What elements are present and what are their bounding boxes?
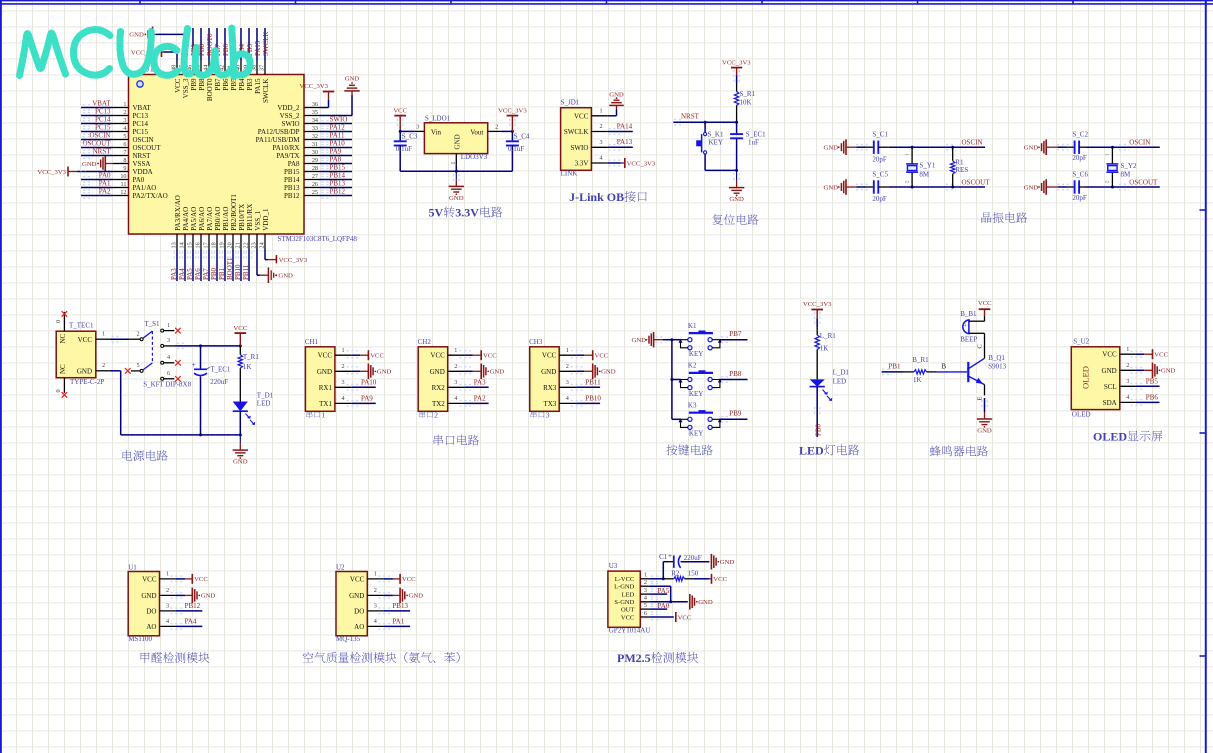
svg-text:8M: 8M xyxy=(1121,171,1132,179)
svg-text:GND: GND xyxy=(409,593,424,600)
svg-text:5: 5 xyxy=(137,362,140,369)
svg-text:VCC_3V3: VCC_3V3 xyxy=(498,108,527,115)
svg-text:11: 11 xyxy=(121,181,127,188)
svg-text:NC: NC xyxy=(59,333,67,343)
wire button to capacitor bottom xyxy=(705,169,738,172)
svg-text:VSS_2: VSS_2 xyxy=(280,112,300,120)
svg-text:4: 4 xyxy=(167,354,170,361)
svg-text:VCC: VCC xyxy=(621,614,634,621)
svg-text:PB10: PB10 xyxy=(234,264,242,280)
svg-text:3: 3 xyxy=(374,603,377,610)
svg-text:PA1: PA1 xyxy=(99,180,111,188)
svg-text:28: 28 xyxy=(312,165,318,172)
wire + net label PB3 (MCU pin 39) xyxy=(246,28,254,61)
svg-text:1: 1 xyxy=(102,330,105,337)
svg-text:L-GND: L-GND xyxy=(614,584,635,591)
svg-text:SWCLK: SWCLK xyxy=(262,79,270,104)
svg-text:1: 1 xyxy=(123,101,126,108)
svg-text:RX2: RX2 xyxy=(432,384,446,392)
svg-text:2: 2 xyxy=(137,330,140,337)
ground at OLED pin 2 xyxy=(1131,363,1176,379)
svg-text:PA0: PA0 xyxy=(658,602,670,610)
svg-text:S_EC1: S_EC1 xyxy=(746,131,766,139)
svg-text:GND: GND xyxy=(1161,368,1176,375)
svg-text:PA5: PA5 xyxy=(658,587,670,595)
svg-text:GND: GND xyxy=(609,92,624,99)
title serial port circuit xyxy=(434,435,479,446)
switch pin 6 stub with no-connect X xyxy=(164,370,181,382)
svg-text:13: 13 xyxy=(171,242,178,248)
svg-text:RX1: RX1 xyxy=(319,384,333,392)
svg-text:23: 23 xyxy=(251,242,258,248)
svg-text:GND: GND xyxy=(1102,367,1117,375)
svg-text:PB10: PB10 xyxy=(585,395,601,403)
wire + net label PB15 (MCU pin 28) xyxy=(320,164,353,175)
power port VCC_3V3 at MCU pin 36 (VDD_2) xyxy=(299,83,334,107)
svg-text:LED: LED xyxy=(799,444,824,458)
svg-text:PA9/TX: PA9/TX xyxy=(276,152,299,160)
svg-text:PB1: PB1 xyxy=(218,267,226,280)
svg-text:1K: 1K xyxy=(243,363,252,371)
svg-text:T_S1: T_S1 xyxy=(144,320,160,328)
svg-text:GND: GND xyxy=(453,134,461,149)
wire + net label PB1 to B_R1 xyxy=(882,362,904,374)
svg-text:KEY: KEY xyxy=(689,430,703,438)
T_TEC1 top NC pin with no-connect X xyxy=(55,311,67,331)
crystal S_Y1 8M xyxy=(904,147,936,187)
svg-text:GND: GND xyxy=(601,369,616,376)
svg-text:GND: GND xyxy=(317,368,332,376)
svg-text:OLED: OLED xyxy=(1072,410,1091,418)
wire switch pin 3 to VCC node xyxy=(164,337,242,349)
wire + net label PB5 (OLED pin 3) xyxy=(1131,377,1160,389)
svg-text:VDD_1: VDD_1 xyxy=(262,208,270,231)
svg-text:GND: GND xyxy=(541,368,556,376)
svg-text:PA3: PA3 xyxy=(170,268,178,280)
svg-text:4: 4 xyxy=(566,395,569,402)
svg-text:OSCIN: OSCIN xyxy=(1129,139,1150,147)
MCUclub logo xyxy=(20,28,251,77)
svg-text:VSSA: VSSA xyxy=(133,160,151,168)
svg-text:S_C2: S_C2 xyxy=(1072,131,1088,139)
svg-text:3: 3 xyxy=(1126,378,1129,385)
svg-text:DO: DO xyxy=(146,607,156,615)
svg-text:OUT: OUT xyxy=(621,607,634,614)
svg-text:2: 2 xyxy=(342,363,345,370)
wire + net label PA9 (CH1 pin 4) xyxy=(347,395,376,407)
svg-text:VSS_3: VSS_3 xyxy=(182,78,190,98)
power port VCC_3V3 at J-Link pin 4 xyxy=(608,158,656,168)
MCU top pin stubs, numbers and names (pins 48-37) xyxy=(171,61,270,104)
svg-text:VCC: VCC xyxy=(393,108,407,115)
svg-text:LINK: LINK xyxy=(561,170,578,178)
ground right of C1 xyxy=(711,554,734,570)
svg-text:Vin: Vin xyxy=(431,128,442,136)
svg-text:T_TEC1: T_TEC1 xyxy=(69,322,94,330)
svg-text:KEY: KEY xyxy=(709,138,723,146)
svg-text:1K: 1K xyxy=(913,376,922,384)
capacitor S_C2 20pF xyxy=(1067,131,1089,162)
svg-text:20pF: 20pF xyxy=(872,195,887,203)
ground at CH2 pin 2 xyxy=(459,364,504,380)
wire + net label PC13 (MCU pin 2) xyxy=(81,108,113,119)
svg-text:OSCOUT: OSCOUT xyxy=(1129,179,1158,187)
svg-text:PA2: PA2 xyxy=(474,395,486,403)
wire + net label PB6 (OLED pin 4) xyxy=(1131,394,1160,406)
svg-text:10K: 10K xyxy=(740,99,752,107)
wire + net label PB12 (U1 pin 3) xyxy=(171,602,203,614)
svg-text:PB2/BOOT1: PB2/BOOT1 xyxy=(230,194,238,231)
svg-text:3: 3 xyxy=(166,603,169,610)
svg-text:PA3/RX/AO: PA3/RX/AO xyxy=(174,195,182,231)
svg-text:S_K1: S_K1 xyxy=(708,130,724,138)
svg-text:30: 30 xyxy=(312,149,318,156)
svg-text:VBAT: VBAT xyxy=(133,104,152,112)
svg-text:TX2: TX2 xyxy=(432,400,445,408)
svg-text:VDDA: VDDA xyxy=(133,168,153,176)
svg-text:2: 2 xyxy=(566,363,569,370)
svg-text:E: E xyxy=(977,397,984,401)
svg-text:2: 2 xyxy=(644,579,647,586)
svg-text:NRST: NRST xyxy=(133,152,152,160)
svg-text:PA11/USB/DM: PA11/USB/DM xyxy=(256,136,301,144)
svg-text:PB14: PB14 xyxy=(330,172,346,180)
svg-text:PB0: PB0 xyxy=(814,423,822,436)
svg-text:TX1: TX1 xyxy=(319,400,332,408)
svg-text:PB5: PB5 xyxy=(1146,377,1159,385)
power port VCC at CH2 pin 1 xyxy=(459,350,497,360)
wire + net label SWIO (MCU pin 34) xyxy=(320,116,353,127)
svg-text:19: 19 xyxy=(219,242,226,248)
svg-text:VCC: VCC xyxy=(233,325,247,332)
svg-text:PB8: PB8 xyxy=(729,370,742,378)
svg-text:1: 1 xyxy=(644,572,647,579)
svg-text:PB14: PB14 xyxy=(284,176,300,184)
svg-text:32: 32 xyxy=(312,133,318,140)
power port VCC at CH1 pin 1 xyxy=(347,350,385,360)
connector CH3 serial header body xyxy=(529,338,576,412)
svg-text:29: 29 xyxy=(312,157,318,164)
sensor module U1 MS1100 body xyxy=(128,563,175,643)
svg-text:PC15: PC15 xyxy=(133,128,149,136)
wire + net label PB0 (MCU pin 18) xyxy=(210,250,220,282)
resistor T_R1 1K xyxy=(238,346,259,371)
title power supply circuit xyxy=(123,450,168,461)
svg-text:PB6: PB6 xyxy=(222,43,230,56)
svg-text:PA5/AO: PA5/AO xyxy=(190,207,198,231)
wire + net label PA12 (MCU pin 33) xyxy=(320,124,353,135)
wire + net label PA0 (U3 pin 5) xyxy=(649,602,670,612)
ground at button column xyxy=(632,332,672,348)
svg-text:VCC: VCC xyxy=(430,352,445,360)
wire + net label PA9 (MCU pin 30) xyxy=(320,148,353,159)
ground at U2 pin 2 xyxy=(378,588,423,604)
title formaldehyde detection module xyxy=(141,652,210,663)
svg-text:LDO3V3: LDO3V3 xyxy=(461,153,488,161)
svg-text:24: 24 xyxy=(259,242,266,248)
svg-text:GND: GND xyxy=(632,337,647,344)
svg-text:PA15: PA15 xyxy=(254,40,262,56)
svg-text:B_B1: B_B1 xyxy=(960,310,977,318)
svg-text:BEEP: BEEP xyxy=(960,336,977,344)
power port VCC_3V3 at MCU pin 9 (VDDA) xyxy=(37,166,113,177)
svg-text:PA7/AO: PA7/AO xyxy=(206,207,214,231)
wire + net label PB1 (MCU pin 19) xyxy=(218,250,228,282)
title 5V to 3.3V circuit xyxy=(429,206,503,220)
ground at MCU pin 23 (VSS_1) xyxy=(257,250,293,284)
svg-text:VCC_3V3: VCC_3V3 xyxy=(722,59,751,66)
LED T_D1 xyxy=(233,368,274,435)
wire buzzer to transistor collector, C label xyxy=(977,333,985,358)
svg-text:GND: GND xyxy=(141,592,156,600)
svg-text:OSCIN: OSCIN xyxy=(962,139,983,147)
svg-text:GND: GND xyxy=(1024,184,1039,191)
switch T_S1 S_KFT DIP-8X8 xyxy=(140,320,192,388)
svg-text:OSCOUT: OSCOUT xyxy=(82,140,111,148)
svg-text:31: 31 xyxy=(312,141,318,148)
wire + net label PB12 (MCU pin 25) xyxy=(320,188,353,199)
svg-text:B_Q1: B_Q1 xyxy=(988,354,1005,362)
svg-text:VCC: VCC xyxy=(194,576,208,583)
svg-text:SWCLK: SWCLK xyxy=(262,32,270,57)
transistor B_Q1 S9013 xyxy=(967,354,1006,384)
wire + net label PA10 (CH1 pin 3) xyxy=(347,378,377,390)
ground at CH3 pin 2 xyxy=(571,364,616,380)
capacitor S_C4 0.1uF xyxy=(506,131,530,171)
ground at S_C2 xyxy=(1024,139,1069,155)
svg-text:VCC: VCC xyxy=(370,353,384,360)
svg-text:6: 6 xyxy=(167,370,170,377)
svg-text:20pF: 20pF xyxy=(1072,194,1087,202)
svg-text:PB11: PB11 xyxy=(242,264,250,280)
svg-text:22: 22 xyxy=(243,242,250,248)
wire button common vertical xyxy=(670,338,673,419)
wire + net label PB4 (MCU pin 40) xyxy=(238,28,246,61)
svg-text:PA2: PA2 xyxy=(99,188,111,196)
svg-text:1: 1 xyxy=(566,347,569,354)
capacitor S_C1 20pF xyxy=(866,131,889,164)
svg-text:K1: K1 xyxy=(688,322,697,330)
svg-text:PA4/AO: PA4/AO xyxy=(182,207,190,231)
MCU left pin stubs, numbers and names (pins 1-12) xyxy=(113,101,168,200)
svg-text:PC14: PC14 xyxy=(133,120,149,128)
svg-text:PB3: PB3 xyxy=(246,78,254,91)
svg-text:3.3V: 3.3V xyxy=(575,160,589,168)
connector CH1 serial header body xyxy=(305,338,352,412)
svg-text:4: 4 xyxy=(600,155,603,162)
svg-text:GND: GND xyxy=(824,145,839,152)
svg-text:S_R1: S_R1 xyxy=(740,90,756,98)
svg-text:1: 1 xyxy=(450,162,457,165)
svg-text:PB9: PB9 xyxy=(190,78,198,91)
buzzer B_B1 BEEP xyxy=(960,310,984,344)
svg-text:1K: 1K xyxy=(820,345,829,353)
wire + net label PB7 (MCU pin 43) xyxy=(214,28,222,61)
svg-text:220uF: 220uF xyxy=(684,554,702,562)
svg-text:VBAT: VBAT xyxy=(92,100,111,108)
svg-text:MQ-135: MQ-135 xyxy=(336,635,361,643)
svg-text:16: 16 xyxy=(195,242,202,248)
svg-text:B: B xyxy=(942,363,947,370)
svg-text:PA9: PA9 xyxy=(361,395,373,403)
svg-text:4: 4 xyxy=(342,395,345,402)
svg-text:PB9: PB9 xyxy=(729,410,742,418)
title OLED display xyxy=(1093,430,1162,444)
ground rail wire of LDO circuit xyxy=(400,166,512,173)
svg-text:GND: GND xyxy=(1024,145,1039,152)
wire + net label PA1 (MCU pin 11) xyxy=(81,180,113,191)
svg-text:PA6/AO: PA6/AO xyxy=(198,207,206,231)
svg-text:VCC: VCC xyxy=(174,78,182,93)
svg-text:GND: GND xyxy=(349,592,364,600)
label serial port 1 xyxy=(306,411,325,420)
svg-text:26: 26 xyxy=(312,181,318,188)
svg-text:OSCOUT: OSCOUT xyxy=(133,144,162,152)
svg-text:17: 17 xyxy=(203,242,210,248)
title buzzer circuit xyxy=(930,446,988,457)
ground at J-Link pin 1 xyxy=(608,92,624,116)
svg-text:PA7: PA7 xyxy=(202,268,210,280)
svg-text:1: 1 xyxy=(374,571,377,578)
svg-text:PM2.5: PM2.5 xyxy=(617,651,651,665)
svg-text:0: 0 xyxy=(55,320,62,323)
svg-text:VCC: VCC xyxy=(713,576,727,583)
svg-text:TYPE-C-2P: TYPE-C-2P xyxy=(70,378,104,386)
ground below buzzer xyxy=(977,400,992,434)
wire + net label SWCLK (MCU pin 37) xyxy=(262,28,270,61)
pushbutton K3 KEY xyxy=(672,402,722,438)
svg-text:GND: GND xyxy=(345,76,360,83)
svg-text:VCC: VCC xyxy=(542,352,557,360)
title J-Link OB interface xyxy=(569,190,647,204)
title PM2.5 detection module xyxy=(617,651,698,665)
title reset circuit xyxy=(712,214,758,225)
power port VCC at U3 pin 6 xyxy=(649,612,692,622)
svg-text:GND: GND xyxy=(449,195,464,202)
wire U3 pin 2 to pin 4 node xyxy=(649,584,670,602)
svg-text:LED: LED xyxy=(622,592,635,599)
connector S_JD1 LINK body xyxy=(561,99,608,178)
svg-text:STM32F103C8T6_LQFP48: STM32F103C8T6_LQFP48 xyxy=(278,235,358,243)
svg-text:2: 2 xyxy=(374,587,377,594)
resistor L_R1 1K xyxy=(815,327,836,352)
svg-text:SCL: SCL xyxy=(1104,383,1117,391)
wire + net label PB11 (MCU pin 22) xyxy=(242,250,252,282)
svg-text:K3: K3 xyxy=(688,402,697,410)
resistor R1 RES xyxy=(951,147,969,187)
capacitor T_EC1 220uF (electrolytic) xyxy=(192,346,231,435)
svg-text:PA11: PA11 xyxy=(330,132,346,140)
svg-text:8M: 8M xyxy=(919,171,930,179)
svg-text:CH3: CH3 xyxy=(529,338,543,346)
sheet border top xyxy=(0,0,1213,5)
wire + net label PA2 (CH2 pin 4) xyxy=(459,395,488,407)
svg-text:10: 10 xyxy=(120,173,126,180)
svg-text:6: 6 xyxy=(644,610,647,617)
wire + net label PA14 (J-Link pin 2) xyxy=(608,122,633,134)
sensor module U3 GP2Y1014AU body xyxy=(608,562,650,634)
svg-text:VCC: VCC xyxy=(483,353,497,360)
ground below power circuit xyxy=(233,435,248,466)
wire + net label PB8 (MCU pin 45) xyxy=(198,28,206,61)
svg-text:5V: 5V xyxy=(429,206,444,220)
svg-text:GND: GND xyxy=(82,161,97,168)
svg-text:PC15: PC15 xyxy=(95,124,111,132)
wire + net label VBAT (MCU pin 1) xyxy=(81,100,113,111)
capacitor S_EC1 1uF (electrolytic) xyxy=(730,122,766,170)
svg-text:PA1/AO: PA1/AO xyxy=(133,184,157,192)
svg-text:5: 5 xyxy=(644,602,647,609)
ground at MCU pin 35 (VSS_2) xyxy=(320,76,360,116)
svg-text:C1: C1 xyxy=(659,553,668,561)
svg-text:KEY: KEY xyxy=(689,390,703,398)
svg-text:PA12/USB/DP: PA12/USB/DP xyxy=(258,128,300,136)
svg-text:MS1100: MS1100 xyxy=(128,635,152,643)
svg-text:20pF: 20pF xyxy=(872,155,887,163)
svg-text:3: 3 xyxy=(454,379,457,386)
svg-text:PB13: PB13 xyxy=(330,180,346,188)
connector T_TEC1 TYPE-C-2P body xyxy=(56,322,104,387)
svg-text:PB13: PB13 xyxy=(284,184,300,192)
svg-text:S-GND: S-GND xyxy=(614,599,634,606)
sheet border right xyxy=(1200,0,1206,753)
svg-text:5: 5 xyxy=(123,133,126,140)
svg-text:PB7: PB7 xyxy=(729,330,742,338)
wire + net label PC14 (MCU pin 3) xyxy=(81,116,113,127)
svg-text:SWIO: SWIO xyxy=(571,144,589,152)
wire + net label PB13 (MCU pin 26) xyxy=(320,180,353,191)
svg-text:OLED: OLED xyxy=(1080,366,1090,389)
wire OSCOUT + net label xyxy=(889,179,990,190)
display S_U2 OLED body xyxy=(1071,337,1136,418)
wire + net label PB8 xyxy=(720,370,748,382)
svg-text:VCC_3V3: VCC_3V3 xyxy=(627,160,656,167)
svg-text:27: 27 xyxy=(312,173,318,180)
svg-text:PB7: PB7 xyxy=(214,78,222,91)
svg-text:U1: U1 xyxy=(128,563,137,571)
svg-text:PA5: PA5 xyxy=(186,268,194,280)
wire + net label PA4 (MCU pin 14) xyxy=(178,250,188,282)
power port VCC_3V3 to MCU pin 48 xyxy=(131,47,177,61)
crystal S_Y2 8M xyxy=(1105,147,1137,187)
svg-text:PB15: PB15 xyxy=(330,164,346,172)
wire + net label PB10 (CH3 pin 4) xyxy=(571,395,602,407)
svg-text:L_R1: L_R1 xyxy=(820,332,836,340)
svg-text:S_U2: S_U2 xyxy=(1073,337,1089,345)
svg-text:PB13: PB13 xyxy=(392,602,408,610)
svg-text:PA12: PA12 xyxy=(330,124,346,132)
power port VCC above T_R1 xyxy=(233,325,247,346)
wire + net label PB5 (MCU pin 41) xyxy=(230,28,238,61)
wire + net label PA10 (MCU pin 31) xyxy=(320,140,353,151)
LED L_D1 xyxy=(810,350,850,401)
svg-text:3: 3 xyxy=(644,587,647,594)
svg-text:2: 2 xyxy=(1105,180,1111,183)
svg-text:4: 4 xyxy=(454,395,457,402)
svg-text:SWIO: SWIO xyxy=(282,120,300,128)
wire + net label PA5 (MCU pin 15) xyxy=(186,250,196,282)
svg-text:PA0: PA0 xyxy=(133,176,145,184)
T_TEC1 bottom NC pin with no-connect X xyxy=(55,378,67,398)
power port VCC_3V3 above S_R1 xyxy=(722,59,751,83)
svg-text:4: 4 xyxy=(374,618,377,625)
svg-text:3.3V: 3.3V xyxy=(455,206,479,220)
svg-text:RX3: RX3 xyxy=(543,384,557,392)
wire + net label PB6 (MCU pin 42) xyxy=(222,28,230,61)
wire + net label NRST xyxy=(673,112,738,125)
svg-text:220uF: 220uF xyxy=(210,378,228,386)
svg-text:1: 1 xyxy=(600,108,603,115)
